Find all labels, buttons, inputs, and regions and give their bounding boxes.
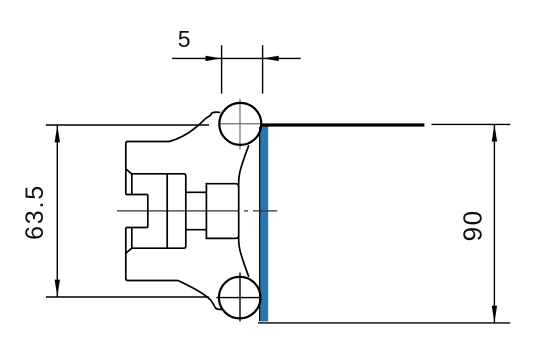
slot mouth top bbox=[126, 194, 148, 196]
svg-text:90: 90 bbox=[458, 209, 488, 241]
washer plate (block2) bbox=[167, 174, 186, 248]
dimension 63.5: bottom arrow bbox=[55, 280, 60, 297]
gasket lip top horizontal bbox=[132, 173, 167, 175]
dimension 63.5: dimension line bbox=[56, 125, 58, 296]
dimension 5: right arrow bbox=[263, 56, 279, 61]
dimension 90: dimension line bbox=[493, 124, 495, 323]
extension line top (63.5/90 upper, through top circle) bbox=[46, 124, 209, 126]
body outline top: outer left edge, top edge, curve to top circle bbox=[126, 112, 221, 194]
screw boss bbox=[206, 184, 238, 239]
crosshair vertical bottom circle bbox=[239, 273, 241, 322]
slot right edge bbox=[147, 195, 149, 228]
dimension 5: dimension line bbox=[172, 57, 301, 59]
centerline (dash-dot) bbox=[117, 210, 277, 212]
gasket lip bottom horizontal bbox=[132, 247, 167, 249]
dimension 90: top arrow bbox=[492, 124, 497, 141]
dimension 90: bottom extension line bbox=[258, 322, 510, 324]
glass panel edge (blue) bbox=[260, 124, 268, 322]
bottom pivot circle bbox=[219, 277, 261, 319]
gasket lip chamfer top bbox=[126, 169, 132, 174]
top pivot circle bbox=[219, 103, 261, 145]
crosshair vertical top circle bbox=[239, 99, 241, 150]
gasket lip inner face top bbox=[131, 174, 133, 195]
screw shaft bbox=[186, 192, 207, 229]
svg-text:63.5: 63.5 bbox=[21, 184, 49, 240]
glass surface line bbox=[259, 127, 261, 322]
svg-text:5: 5 bbox=[178, 26, 191, 52]
slot mouth bottom bbox=[126, 227, 148, 229]
dimension 5: extension lines bbox=[221, 45, 223, 93]
dimension 90: bottom arrow bbox=[492, 306, 497, 323]
extension line bottom left (63.5 lower, through bottom circle) bbox=[46, 296, 209, 298]
dimension 5: left arrow bbox=[206, 56, 222, 61]
gasket lip chamfer bottom bbox=[126, 248, 132, 253]
right profile edge: top circle to bottom circle along boss right bbox=[239, 145, 249, 277]
door panel thick line bbox=[260, 123, 424, 126]
dimension 90: top extension line bbox=[432, 123, 511, 125]
gasket lip inner face bottom bbox=[131, 228, 133, 249]
dimension 63.5: top arrow bbox=[55, 125, 60, 142]
body outline bottom: outer left edge, bottom edge, curve to bottom circle bbox=[126, 228, 223, 310]
